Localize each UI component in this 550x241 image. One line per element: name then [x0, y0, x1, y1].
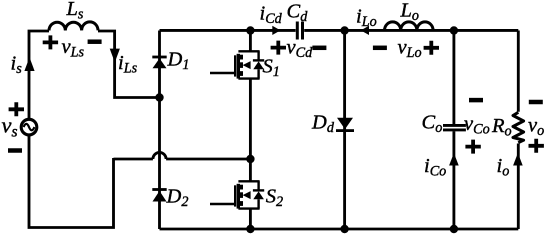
capacitor Cd	[297, 22, 302, 40]
junction: S1 source / S2 drain node	[246, 155, 254, 163]
- of vo	[529, 100, 543, 105]
+ of vCd	[271, 41, 286, 55]
junction: D1 anode / iLs wire node	[155, 93, 163, 101]
arrow iCd (right)	[272, 26, 280, 35]
- of vLo	[373, 46, 387, 51]
wire: S2 source to bottom rail	[249, 209, 252, 229]
wire: vs bottom lead, bottom-left return, up to mid rail	[29, 136, 114, 228]
arrow iLs (down)	[110, 49, 120, 63]
arrow iCo (up)	[449, 153, 459, 166]
- of vCo	[469, 98, 483, 103]
inductor Ls	[49, 22, 98, 31]
diode D2	[152, 188, 166, 201]
wire: Co branch upper	[452, 31, 455, 125]
- of vs	[8, 148, 22, 153]
MOSFET S2	[210, 181, 264, 208]
wire: right edge above Ro	[517, 31, 520, 112]
wire: top rail from D1 branch to Cd left plate	[160, 29, 296, 32]
wire: right edge below Ro	[517, 144, 520, 230]
wire: S1 source to mid junction	[249, 79, 252, 159]
wire: vs top lead and top-left rail to Ls	[29, 31, 49, 119]
wire: D1-D2 vertical branch	[158, 31, 161, 230]
arrow io (up)	[513, 153, 523, 166]
resistor Ro	[513, 112, 524, 142]
- of vCd	[312, 46, 326, 51]
capacitor Co	[443, 125, 466, 129]
junction: S2 source on bottom rail	[246, 225, 254, 233]
current arrows	[24, 26, 522, 166]
wire: mid rail from corner to hop	[114, 158, 153, 161]
arrow iLo (left)	[361, 26, 369, 35]
MOSFET S1	[210, 51, 264, 78]
wire: Co branch lower	[452, 131, 455, 229]
+ of vs	[9, 102, 24, 116]
+ of vLs	[43, 35, 58, 49]
inductor Lo	[385, 22, 434, 31]
- of vLs	[88, 39, 102, 44]
junction: Lo / Co node on top rail	[450, 26, 458, 34]
wire: crossover hop over D1-D2 branch	[153, 152, 166, 159]
plus/minus signs	[8, 35, 544, 153]
wire: Ls to corner, down (iLs branch), right to D1-D2 node	[98, 31, 160, 98]
junction: Dd cathode on bottom rail	[340, 225, 348, 233]
arrow is (up)	[24, 57, 34, 71]
diode D1	[152, 56, 166, 69]
wire: S1 drain from top rail	[249, 31, 252, 52]
wire: S2 drain from mid junction	[249, 159, 252, 181]
junction: S1 drain on top rail	[246, 26, 254, 34]
wire: top rail from Cd right plate to top-right corner	[304, 29, 518, 32]
wire: Dd vertical branch	[343, 31, 346, 230]
diode Dd	[336, 118, 354, 132]
junction: Co on bottom rail	[450, 225, 458, 233]
source vs	[21, 119, 37, 135]
wire: bottom rail	[160, 228, 519, 231]
+ of vo	[529, 139, 544, 153]
+ of vLo	[424, 41, 439, 55]
junction: Cd / Dd node on top rail	[340, 26, 348, 34]
wire: mid rail from hop to S1/S2 node	[166, 158, 250, 161]
+ of vCo	[465, 140, 480, 154]
